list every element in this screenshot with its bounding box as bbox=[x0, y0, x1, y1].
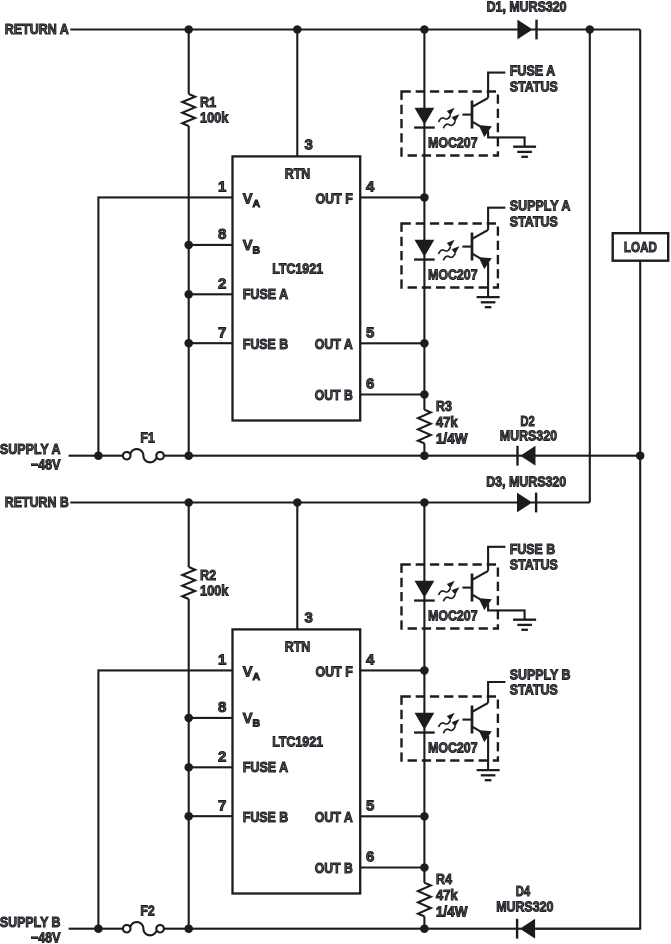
light arrow 2 of U2 bbox=[443, 253, 455, 260]
svg-text:1/4W: 1/4W bbox=[436, 904, 468, 920]
LED of optocoupler U4 bbox=[415, 713, 435, 730]
junction: return A rail / RTN pin 3 bbox=[293, 25, 302, 34]
wire: pin 5 OUT A stub bbox=[360, 342, 424, 344]
svg-text:STATUS: STATUS bbox=[510, 80, 558, 96]
wire: pin 3 RTN to return rail bbox=[296, 30, 298, 157]
svg-text:STATUS: STATUS bbox=[510, 683, 558, 699]
wire: emitter of U2 down to ground bbox=[487, 263, 489, 297]
wire: load rail bottom bbox=[536, 261, 640, 929]
resistor R2 100k bbox=[182, 567, 195, 599]
svg-text:RTN: RTN bbox=[285, 166, 311, 182]
fuse F2 bbox=[123, 922, 164, 935]
wire: pin 1 V_A sense loop to supply A bbox=[98, 197, 232, 455]
junction: return A rail / D3 branch bbox=[586, 25, 595, 34]
wire: pin 5 OUT A stub bbox=[360, 815, 424, 817]
svg-text:RTN: RTN bbox=[285, 639, 311, 655]
wire: pin 2 stub bbox=[189, 293, 233, 295]
light arrow 2 of U4 bbox=[443, 726, 455, 733]
ground (emitter of U1) bbox=[513, 147, 536, 157]
junction: SUPPLY A / divider column bbox=[184, 451, 193, 460]
svg-text:OUT A: OUT A bbox=[315, 337, 353, 353]
junction: SUPPLY A rail / load rail bbox=[636, 451, 645, 460]
svg-text:47k: 47k bbox=[436, 415, 459, 431]
optocoupler U4 MOC207 (dashed package outline) bbox=[402, 697, 498, 761]
svg-text:LOAD: LOAD bbox=[624, 240, 657, 256]
junction: OUT B / LED column bbox=[420, 863, 429, 872]
LED of optocoupler U1 bbox=[415, 108, 435, 125]
wire: emitter of U3 to ground bbox=[488, 604, 524, 620]
svg-text:F2: F2 bbox=[140, 903, 154, 919]
svg-text:FUSE A: FUSE A bbox=[243, 287, 289, 303]
ground (emitter of U4) bbox=[477, 770, 500, 780]
svg-text:1: 1 bbox=[218, 652, 226, 669]
svg-text:−48V: −48V bbox=[31, 457, 61, 473]
optocoupler U2 MOC207 (dashed package outline) bbox=[402, 224, 498, 288]
junction: pin 2 / divider column bbox=[184, 290, 193, 299]
junction: SUPPLY B / R4 bbox=[420, 924, 429, 933]
wire: SUPPLY A rail left of fuse bbox=[69, 455, 123, 457]
wire: pin 4 OUT F stub bbox=[360, 669, 424, 671]
svg-text:6: 6 bbox=[366, 849, 374, 866]
junction: return B rail / opto column bbox=[420, 498, 429, 507]
svg-text:8: 8 bbox=[218, 226, 226, 243]
junction: return A rail / opto column bbox=[420, 25, 429, 34]
svg-text:LTC1921: LTC1921 bbox=[272, 735, 323, 751]
LED of optocoupler U2 bbox=[415, 240, 435, 257]
junction: OUT F / LED column bbox=[420, 193, 429, 202]
wire: opto column below R bbox=[423, 443, 425, 455]
svg-text:RETURN A: RETURN A bbox=[5, 22, 69, 38]
phototransistor of U3 bbox=[462, 571, 491, 610]
optocoupler U3 MOC207 (dashed package outline) bbox=[402, 565, 498, 629]
ground (emitter of U3) bbox=[513, 620, 536, 630]
svg-text:4: 4 bbox=[366, 179, 375, 196]
light arrow 1 of U4 bbox=[439, 720, 451, 727]
svg-text:SUPPLY A: SUPPLY A bbox=[0, 442, 61, 458]
wire: divider column (R2) bbox=[188, 503, 190, 568]
svg-text:SUPPLY B: SUPPLY B bbox=[510, 668, 571, 684]
resistor R3 47k bbox=[418, 410, 431, 444]
wire: opto LED column bbox=[423, 30, 425, 410]
diode D2 bbox=[516, 446, 535, 466]
junction: pin 7 / divider column bbox=[184, 339, 193, 348]
svg-text:MURS320: MURS320 bbox=[496, 899, 553, 915]
svg-text:2: 2 bbox=[218, 276, 226, 293]
wire: pin 6 OUT B stub bbox=[360, 866, 424, 868]
svg-text:OUT A: OUT A bbox=[315, 810, 353, 826]
resistor R4 47k bbox=[418, 883, 431, 917]
fuse F1 bbox=[123, 449, 164, 462]
svg-text:2: 2 bbox=[218, 749, 226, 766]
diode D3 bbox=[517, 493, 537, 513]
svg-text:5: 5 bbox=[366, 798, 374, 815]
junction: SUPPLY B / V_A loop bbox=[94, 924, 103, 933]
svg-text:D4: D4 bbox=[516, 884, 531, 900]
svg-text:OUT B: OUT B bbox=[315, 861, 353, 877]
svg-text:7: 7 bbox=[218, 324, 226, 341]
svg-text:FUSE A: FUSE A bbox=[243, 760, 289, 776]
phototransistor of U1 bbox=[462, 98, 491, 137]
junction: pin 2 / divider column bbox=[184, 763, 193, 772]
junction: OUT B / LED column bbox=[420, 390, 429, 399]
optocoupler U1 MOC207 (dashed package outline) bbox=[402, 92, 498, 156]
svg-text:MOC207: MOC207 bbox=[428, 136, 478, 152]
svg-text:47k: 47k bbox=[436, 888, 459, 904]
wire: opto LED column bbox=[423, 503, 425, 883]
wire: pin 2 stub bbox=[189, 766, 233, 768]
svg-text:4: 4 bbox=[366, 652, 375, 669]
wire: collector of U1 up to status stub bbox=[488, 73, 505, 98]
svg-text:D3, MURS320: D3, MURS320 bbox=[486, 475, 566, 491]
svg-text:OUT B: OUT B bbox=[315, 388, 353, 404]
junction: pin 8 / divider column bbox=[184, 714, 193, 723]
svg-text:100k: 100k bbox=[200, 584, 229, 600]
svg-text:R2: R2 bbox=[200, 568, 216, 584]
wire: RETURN A rail bbox=[70, 28, 640, 30]
phototransistor of U4 bbox=[462, 703, 491, 742]
junction: OUT F / LED column bbox=[420, 666, 429, 675]
wire: load rail top bbox=[639, 30, 641, 234]
svg-text:MOC207: MOC207 bbox=[428, 268, 478, 284]
svg-text:8: 8 bbox=[218, 699, 226, 716]
wire: collector of U4 up to status stub bbox=[488, 682, 505, 703]
svg-text:OUT F: OUT F bbox=[316, 192, 353, 208]
svg-text:FUSE A: FUSE A bbox=[510, 63, 556, 79]
wire: SUPPLY A rail right of fuse bbox=[164, 455, 640, 457]
svg-text:R4: R4 bbox=[436, 872, 453, 888]
svg-text:RETURN B: RETURN B bbox=[5, 495, 69, 511]
op-amp / IC U1 LTC1921 body bbox=[233, 156, 361, 420]
svg-text:FUSE B: FUSE B bbox=[510, 542, 555, 558]
junction: SUPPLY A / V_A loop bbox=[94, 451, 103, 460]
wire: SUPPLY B rail right of fuse bbox=[164, 928, 640, 930]
ground (emitter of U2) bbox=[477, 297, 500, 307]
light arrow 1 of U3 bbox=[439, 588, 451, 595]
svg-text:−48V: −48V bbox=[31, 930, 61, 944]
resistor R1 100k bbox=[182, 94, 195, 126]
junction: OUT A / LED column bbox=[420, 812, 429, 821]
wire: collector of U3 up to status stub bbox=[488, 547, 505, 571]
svg-text:D1, MURS320: D1, MURS320 bbox=[487, 0, 567, 15]
wire: divider column (R1) bbox=[188, 30, 190, 95]
svg-text:1/4W: 1/4W bbox=[436, 431, 468, 447]
svg-text:R1: R1 bbox=[200, 95, 216, 111]
op-amp / IC U2 LTC1921 body bbox=[233, 629, 361, 893]
wire: pin 8 stub bbox=[189, 244, 233, 246]
svg-text:1: 1 bbox=[218, 179, 226, 196]
svg-text:SUPPLY B: SUPPLY B bbox=[0, 915, 61, 931]
wire: emitter of U1 to ground bbox=[488, 131, 524, 147]
junction: SUPPLY B / divider column bbox=[184, 924, 193, 933]
wire: pin 1 V_A sense loop to supply B bbox=[98, 670, 232, 928]
wire: SUPPLY B rail left of fuse bbox=[69, 928, 123, 930]
junction: return B rail / R2 bbox=[184, 498, 193, 507]
svg-text:6: 6 bbox=[366, 376, 374, 393]
junction: return A rail / R1 bbox=[184, 25, 193, 34]
wire: R2 bottom to supply B rail bbox=[188, 599, 190, 929]
svg-text:D2: D2 bbox=[520, 414, 534, 430]
wire: pin 8 stub bbox=[189, 717, 233, 719]
diode D4 bbox=[516, 919, 535, 939]
wire: pin 3 RTN to return rail bbox=[296, 503, 298, 630]
diode D1 bbox=[517, 20, 537, 40]
svg-text:FUSE B: FUSE B bbox=[243, 337, 288, 353]
svg-text:OUT F: OUT F bbox=[316, 665, 353, 681]
wire: D3 cathode branch up to return A rail bbox=[589, 30, 591, 503]
junction: SUPPLY A / R3 bbox=[420, 451, 429, 460]
svg-text:LTC1921: LTC1921 bbox=[272, 262, 323, 278]
phototransistor of U2 bbox=[462, 230, 491, 269]
junction: OUT A / LED column bbox=[420, 339, 429, 348]
wire: opto column below R bbox=[423, 916, 425, 928]
load LOAD box bbox=[613, 233, 669, 261]
svg-text:3: 3 bbox=[305, 609, 313, 626]
svg-text:100k: 100k bbox=[200, 111, 229, 127]
LED of optocoupler U3 bbox=[415, 581, 435, 598]
wire: pin 6 OUT B stub bbox=[360, 393, 424, 395]
svg-text:MURS320: MURS320 bbox=[500, 428, 557, 444]
svg-text:3: 3 bbox=[305, 136, 313, 153]
wire: pin 7 stub bbox=[189, 815, 233, 817]
junction: pin 8 / divider column bbox=[184, 241, 193, 250]
wire: RETURN B rail bbox=[70, 501, 590, 503]
svg-text:F1: F1 bbox=[140, 430, 154, 446]
svg-text:FUSE B: FUSE B bbox=[243, 810, 288, 826]
light arrow 1 of U1 bbox=[439, 115, 451, 122]
light arrow 1 of U2 bbox=[439, 247, 451, 254]
wire: emitter of U4 down to ground bbox=[487, 736, 489, 770]
wire: pin 4 OUT F stub bbox=[360, 196, 424, 198]
light arrow 2 of U1 bbox=[443, 121, 455, 128]
svg-text:5: 5 bbox=[366, 325, 374, 342]
wire: R1 bottom to supply A rail bbox=[188, 126, 190, 456]
wire: pin 7 stub bbox=[189, 342, 233, 344]
svg-text:R3: R3 bbox=[436, 399, 452, 415]
svg-text:7: 7 bbox=[218, 797, 226, 814]
svg-text:SUPPLY A: SUPPLY A bbox=[510, 199, 571, 215]
light arrow 2 of U3 bbox=[443, 594, 455, 601]
svg-text:STATUS: STATUS bbox=[510, 558, 558, 574]
svg-text:MOC207: MOC207 bbox=[428, 741, 478, 757]
wire: collector of U2 up to status stub bbox=[488, 208, 505, 230]
svg-text:MOC207: MOC207 bbox=[428, 609, 478, 625]
svg-text:STATUS: STATUS bbox=[510, 215, 558, 231]
junction: return B rail / RTN pin 3 bbox=[293, 498, 302, 507]
junction: pin 7 / divider column bbox=[184, 812, 193, 821]
